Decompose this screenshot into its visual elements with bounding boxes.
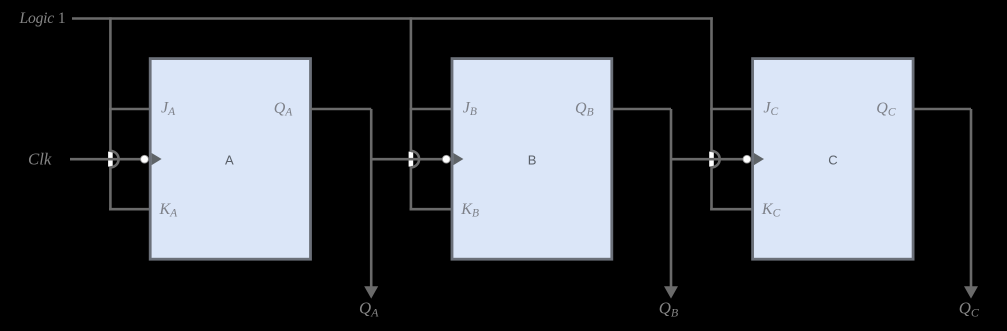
arrowhead Q_C output: [964, 286, 978, 298]
wire Q_B output vertical (to output arrow and FF C clock): [670, 109, 673, 287]
wire hop arc at FF B: [411, 151, 419, 167]
clock inversion bubble at FF B: [442, 155, 450, 163]
clock inversion bubble at FF A: [141, 155, 149, 163]
wire Clk input to FF A clock: [70, 158, 145, 161]
svg-text:C: C: [828, 152, 837, 167]
wire branch to J_A input: [109, 108, 150, 111]
wire Logic-1 vertical drop to FF C (upper segment): [710, 17, 713, 151]
wire branch to J_B input: [410, 108, 452, 111]
wire Q_C output horizontal: [913, 108, 971, 111]
wire branch to K_A input: [109, 208, 150, 211]
clock edge-trigger arrow inside FF C: [754, 153, 764, 165]
wire hop arc at FF A: [110, 151, 118, 167]
arrowhead Q_A output: [364, 286, 378, 298]
wire hop white gap (Clk crosses Logic-1 drop, no connection) at FF A: [108, 152, 113, 167]
wire Logic-1 vertical drop to FF B (lower segment): [410, 167, 413, 210]
wire hop white gap (clock crosses Logic-1 drop, no connection) at FF C: [709, 152, 714, 167]
clock edge-trigger arrow inside FF B: [453, 153, 463, 165]
svg-text:Clk: Clk: [28, 150, 52, 169]
wire hop white gap (clock crosses Logic-1 drop, no connection) at FF B: [409, 152, 414, 167]
wire Logic-1 vertical drop to FF B (upper segment): [410, 17, 413, 151]
wire branch to J_C input: [710, 108, 752, 111]
svg-text:Logic 1: Logic 1: [19, 10, 66, 27]
wire hop arc at FF C: [712, 151, 720, 167]
clock inversion bubble at FF C: [743, 155, 751, 163]
svg-text:A: A: [225, 152, 234, 167]
wire branch to K_C input: [710, 208, 752, 211]
svg-text:B: B: [528, 152, 537, 167]
wire Logic-1 vertical drop to FF C (lower segment): [710, 167, 713, 210]
wire Q_B output horizontal: [612, 108, 671, 111]
wire Q_C output vertical (to output arrow): [970, 109, 973, 287]
flip-flop A body: [150, 59, 310, 260]
wire Logic-1 vertical drop to FF A (lower segment): [109, 167, 112, 210]
wire Q_B to FF C clock: [671, 158, 747, 161]
wire Logic-1 bus (top horizontal): [72, 17, 713, 20]
arrowhead Q_B output: [664, 286, 678, 298]
wire Q_A to FF B clock: [371, 158, 447, 161]
wire Logic-1 vertical drop to FF A (upper segment): [109, 17, 112, 151]
wire Q_A output vertical (to output arrow and FF B clock): [370, 109, 373, 287]
flip-flop C body: [753, 59, 914, 260]
wire Q_A output horizontal: [311, 108, 372, 111]
clock edge-trigger arrow inside FF A: [152, 153, 162, 165]
flip-flop B body: [452, 59, 612, 260]
wire branch to K_B input: [410, 208, 452, 211]
